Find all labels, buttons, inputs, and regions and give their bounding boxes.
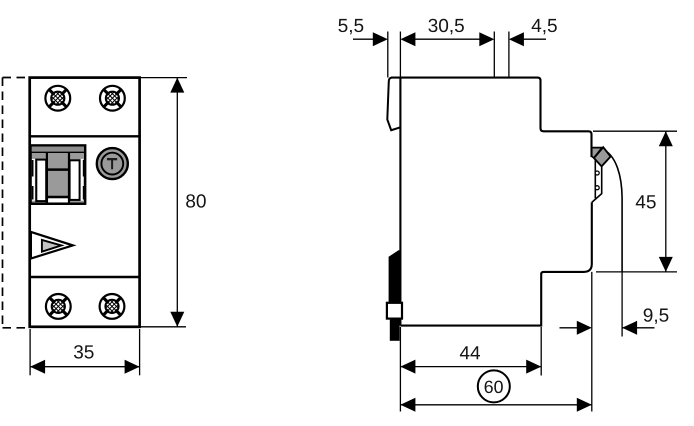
left white slot xyxy=(36,160,46,202)
dimension 5,5 xyxy=(353,32,400,78)
toggle switch assembly xyxy=(30,145,85,203)
terminal corner wedge (grey) xyxy=(592,148,602,158)
dimension 30,5 xyxy=(403,38,492,40)
left side channel xyxy=(32,159,35,201)
arrow-flag symbol (trip indicator) xyxy=(31,232,73,259)
dimension 35 (front view width) xyxy=(30,329,140,375)
assembly bottom line xyxy=(30,202,85,205)
test button T xyxy=(97,148,128,179)
side body outline xyxy=(399,78,401,326)
screw top-left xyxy=(45,86,70,111)
dashed outline of adjacent module (phantom line) xyxy=(3,78,30,328)
toggle knob xyxy=(46,153,69,198)
screw bottom-left xyxy=(46,294,71,319)
right white slot xyxy=(70,160,80,200)
dimension 4,5 xyxy=(523,38,546,40)
screw top-right xyxy=(100,86,125,111)
dimension 44 xyxy=(400,327,541,412)
terminal clamp diamond (grey) xyxy=(594,147,611,166)
divider line lower xyxy=(30,276,140,278)
right side channel xyxy=(80,159,83,201)
terminal screw dots xyxy=(595,171,599,175)
rear lower profile with DIN-rail notch xyxy=(400,202,591,325)
divider line upper xyxy=(30,135,140,137)
dimension 60 (circled) xyxy=(401,404,592,406)
terminal cage lines xyxy=(594,160,596,199)
dimension 45 xyxy=(593,131,677,272)
dimension 80 (front view height) xyxy=(140,78,187,327)
rear arc over terminal xyxy=(607,152,623,272)
DIN rail clip (black) xyxy=(389,250,400,303)
breaker body outline (front view) xyxy=(30,78,140,327)
screw bottom-right xyxy=(100,294,125,319)
dimension 9,5 xyxy=(560,272,655,412)
